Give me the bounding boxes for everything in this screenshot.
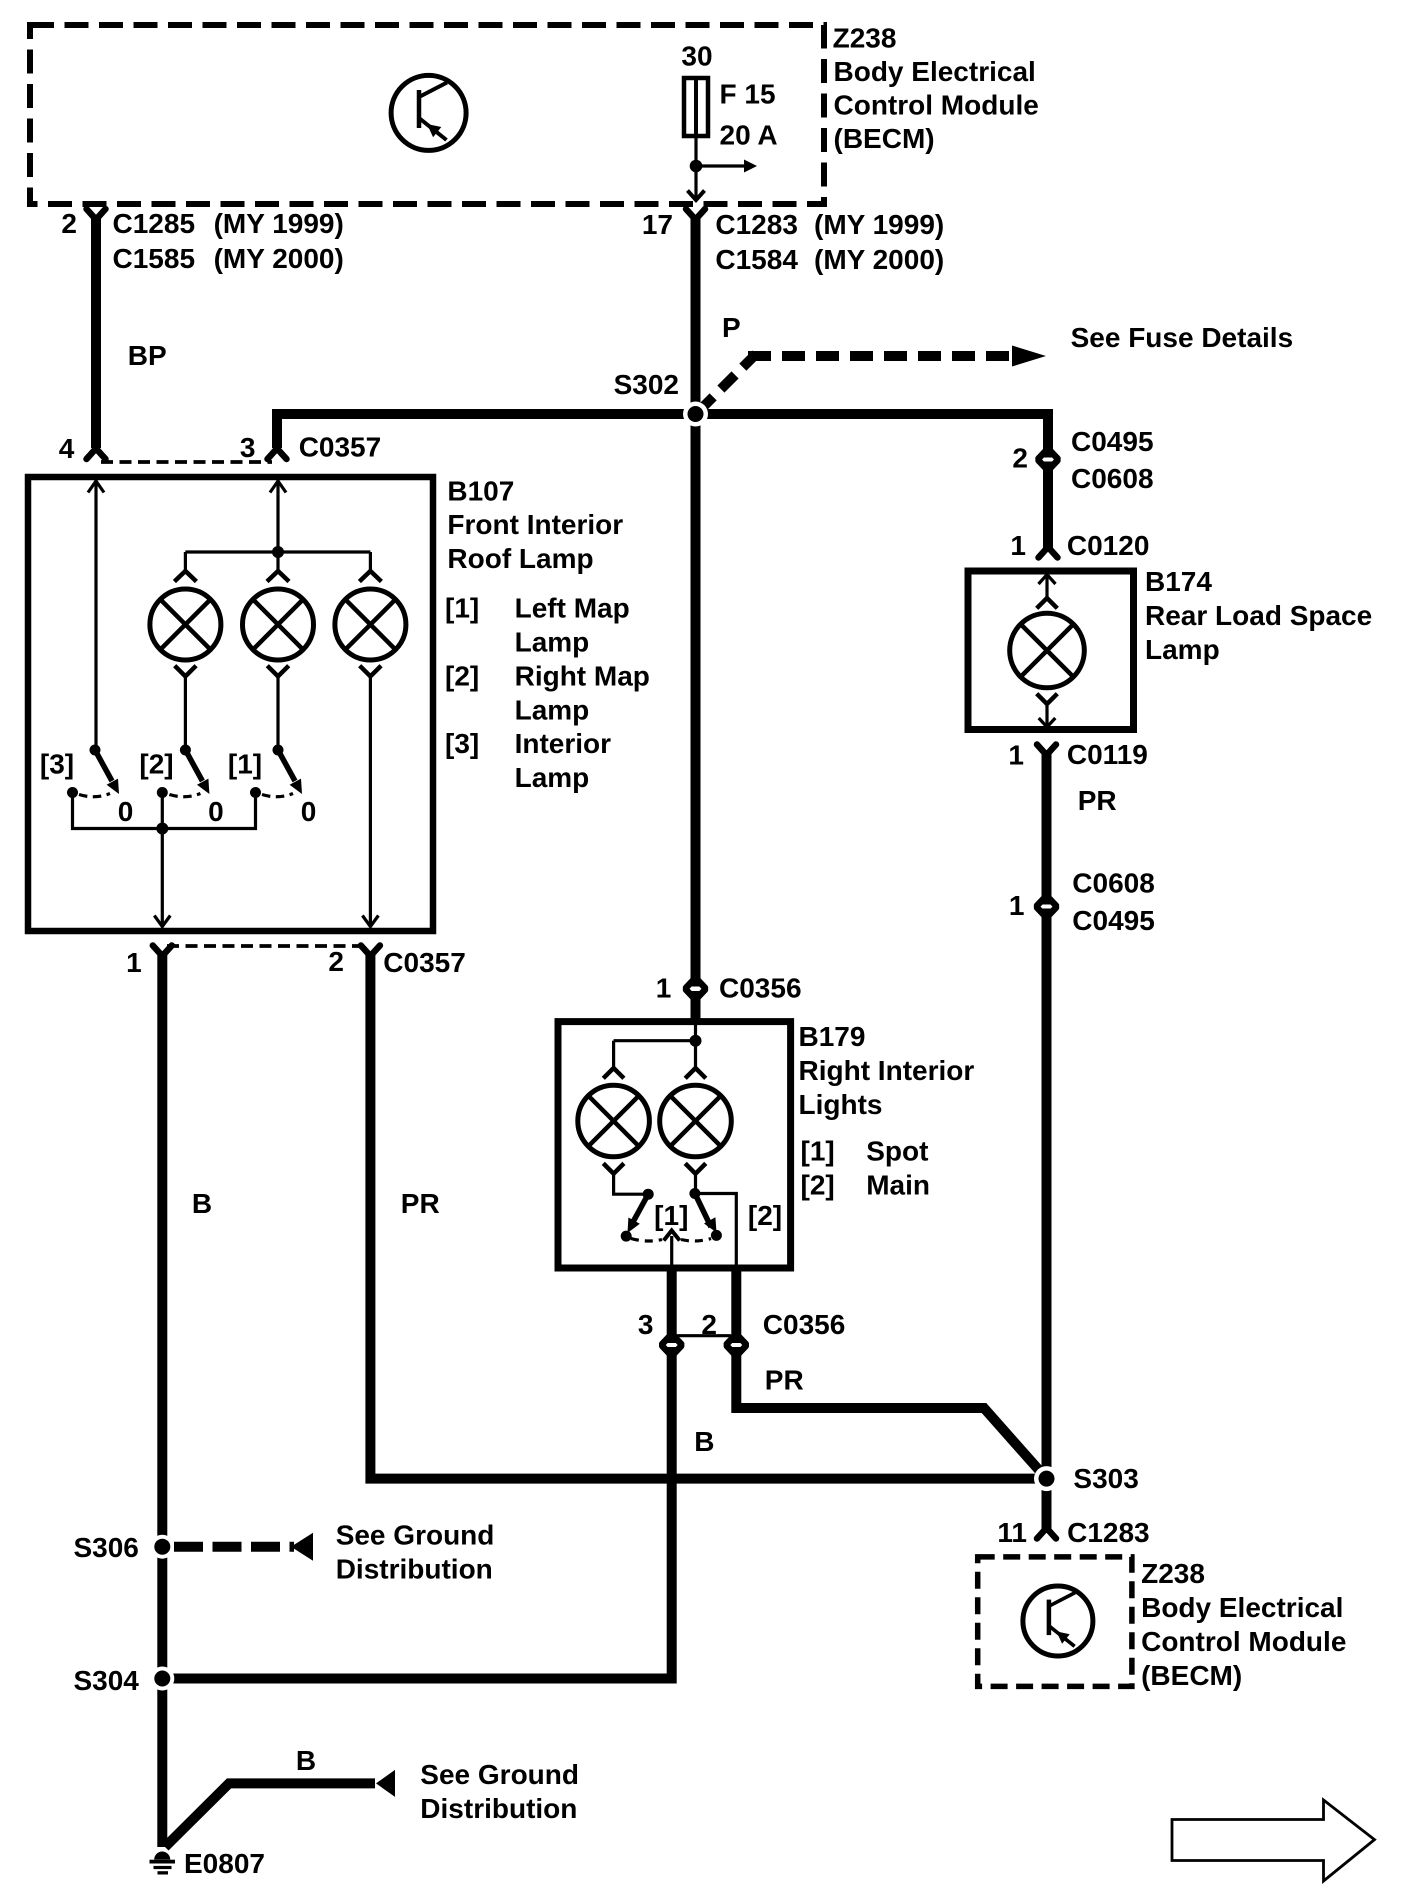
connector C1283 pin 11 fork — [1037, 1528, 1056, 1539]
svg-text:Control Module: Control Module — [834, 90, 1039, 121]
wire branch arrow right inside BECM — [696, 164, 744, 167]
lamp unit B179 box — [558, 1022, 791, 1268]
wire S302 horizontal right to C0495 — [696, 414, 1049, 458]
svg-text:[1]: [1] — [228, 749, 262, 780]
lamp spot B179 — [578, 1068, 650, 1174]
lamp B107 box — [28, 477, 433, 931]
wire B107 pin3 internal — [276, 480, 279, 552]
wire switch pole down — [161, 793, 164, 927]
svg-text:F 15: F 15 — [720, 79, 776, 110]
svg-text:(MY 1999): (MY 1999) — [214, 208, 344, 239]
svg-text:17: 17 — [642, 209, 673, 240]
svg-text:(BECM): (BECM) — [834, 123, 935, 154]
transistor symbol inside bottom BECM — [1023, 1586, 1093, 1656]
connector C0357 pin 2 fork — [361, 946, 380, 957]
svg-text:Rear Load Space: Rear Load Space — [1145, 600, 1372, 631]
svg-text:C0495: C0495 — [1071, 426, 1154, 457]
svg-text:C0356: C0356 — [763, 1309, 846, 1340]
connector C0120 pin 1 fork — [1039, 547, 1058, 558]
lamp right map B107 — [243, 571, 314, 676]
wire B174 internal bottom — [1045, 704, 1048, 727]
junction lamp bus — [272, 546, 284, 558]
wire switch common bus — [73, 793, 256, 829]
wire B diagonal to ground distribution — [165, 1783, 375, 1847]
svg-text:C1283: C1283 — [1067, 1517, 1150, 1548]
svg-text:[2]: [2] — [748, 1200, 782, 1231]
svg-text:B: B — [192, 1188, 212, 1219]
svg-text:C0608: C0608 — [1072, 868, 1155, 899]
svg-text:Lamp: Lamp — [515, 627, 590, 658]
wire fuse output — [694, 136, 697, 197]
svg-text:1: 1 — [656, 973, 672, 1004]
svg-text:B179: B179 — [799, 1021, 866, 1052]
svg-text:BP: BP — [128, 340, 167, 371]
svg-text:Body Electrical: Body Electrical — [834, 56, 1036, 87]
wire B179 feed — [694, 1022, 697, 1041]
junction below fuse — [690, 160, 703, 173]
svg-text:C0356: C0356 — [719, 973, 802, 1004]
wire BP from pin 2 to B107 pin 4 — [91, 218, 101, 449]
wire B179 pin2 out — [731, 1268, 741, 1343]
wire C0356 to B179 — [691, 991, 701, 1022]
svg-text:See Fuse Details: See Fuse Details — [1071, 322, 1294, 353]
svg-text:Z238: Z238 — [1141, 1558, 1205, 1589]
svg-text:[2]: [2] — [445, 661, 479, 692]
svg-text:4: 4 — [59, 433, 75, 464]
svg-text:[1]: [1] — [654, 1200, 688, 1231]
wire PR from pin2 down right to S303 — [370, 954, 1046, 1479]
wire PR from B179 pin2 to S303 — [736, 1347, 1046, 1479]
svg-text:1: 1 — [1009, 890, 1025, 921]
svg-text:0: 0 — [301, 796, 317, 827]
svg-text:(BECM): (BECM) — [1141, 1660, 1242, 1691]
lamp B174 box — [968, 571, 1134, 730]
svg-text:[3]: [3] — [40, 749, 74, 780]
svg-text:S306: S306 — [73, 1532, 138, 1563]
wire main branch to pin 2 — [695, 1194, 736, 1269]
svg-text:[1]: [1] — [445, 593, 479, 624]
wire B black from pin1 down to E0807 — [157, 954, 167, 1847]
lamp left map B107 — [150, 571, 221, 676]
junction switch bus — [156, 823, 168, 835]
svg-text:C1285: C1285 — [113, 208, 196, 239]
junction B179 feed — [690, 1035, 702, 1047]
svg-text:PR: PR — [401, 1188, 440, 1219]
svg-text:C0495: C0495 — [1072, 905, 1155, 936]
svg-text:Interior: Interior — [515, 728, 612, 759]
splice S302 — [683, 402, 708, 427]
svg-text:3: 3 — [638, 1309, 654, 1340]
wire lamp3 to pin2 — [369, 676, 372, 926]
svg-text:S302: S302 — [614, 369, 679, 400]
svg-text:2: 2 — [1012, 443, 1028, 474]
svg-text:Body Electrical: Body Electrical — [1141, 1592, 1343, 1623]
dashed connector line C0357 top — [101, 460, 272, 464]
wire PR from C0119 down — [1042, 753, 1052, 905]
svg-text:2: 2 — [701, 1309, 717, 1340]
svg-text:B: B — [694, 1426, 714, 1457]
connector C0357 pin 4 fork — [87, 449, 106, 460]
ground E0807 — [150, 1852, 176, 1875]
wire B174 internal top — [1045, 575, 1048, 598]
lamp interior B107 — [335, 571, 406, 676]
arrow down to pin 17 — [688, 191, 705, 201]
connector C0119 pin 1 fork — [1037, 745, 1056, 756]
svg-text:3: 3 — [240, 432, 256, 463]
pin 17 connector C1283/C1584 fork — [686, 209, 705, 220]
wire switch pole to pin 3 — [670, 1236, 673, 1268]
svg-text:Main: Main — [866, 1170, 930, 1201]
svg-text:C1283: C1283 — [715, 209, 798, 240]
connector line C0356 bottom — [676, 1334, 731, 1337]
svg-text:P: P — [722, 312, 741, 343]
svg-text:11: 11 — [997, 1517, 1027, 1548]
wire lamp feed bus — [185, 550, 370, 553]
svg-text:30: 30 — [681, 41, 712, 72]
svg-text:PR: PR — [1078, 785, 1117, 816]
wire P from pin 17 down to C0356 — [691, 218, 701, 987]
splice S306 — [150, 1535, 174, 1559]
svg-text:S303: S303 — [1073, 1463, 1138, 1494]
svg-text:1: 1 — [1010, 530, 1026, 561]
wire B179 pin3 out — [667, 1268, 677, 1343]
svg-text:C0357: C0357 — [383, 947, 466, 978]
svg-text:[2]: [2] — [801, 1170, 835, 1201]
connector C0495/C0608 pin 2 inline pair — [1039, 449, 1058, 471]
svg-text:(MY 2000): (MY 2000) — [214, 243, 344, 274]
svg-text:Lamp: Lamp — [515, 695, 590, 726]
svg-text:Distribution: Distribution — [336, 1554, 493, 1585]
wire main lamp to switch — [694, 1174, 697, 1192]
splice S303 — [1034, 1466, 1059, 1491]
svg-text:B: B — [296, 1745, 316, 1776]
svg-text:Control Module: Control Module — [1141, 1626, 1346, 1657]
connector C0357 pin 1 fork — [153, 946, 172, 957]
svg-text:1: 1 — [126, 947, 142, 978]
pin 2 connector C1285/C1585 fork — [87, 209, 106, 220]
svg-text:E0807: E0807 — [184, 1848, 265, 1879]
switch 1 — [250, 745, 302, 799]
connector C0356 pin 1 inline pair — [686, 978, 705, 1000]
svg-text:B107: B107 — [447, 476, 514, 507]
svg-text:[1]: [1] — [801, 1136, 835, 1167]
svg-text:(MY 1999): (MY 1999) — [814, 209, 944, 240]
svg-text:Right Map: Right Map — [515, 661, 650, 692]
svg-text:1: 1 — [1008, 740, 1024, 771]
svg-text:Roof Lamp: Roof Lamp — [447, 543, 593, 574]
lamp main B179 — [660, 1068, 732, 1174]
svg-text:Distribution: Distribution — [420, 1793, 577, 1824]
switch 3 — [67, 745, 119, 799]
svg-text:Z238: Z238 — [833, 23, 897, 54]
connector C0356 pin 2 inline pair — [727, 1334, 746, 1356]
svg-text:C0119: C0119 — [1067, 739, 1148, 770]
svg-text:2: 2 — [328, 946, 344, 977]
page continuation arrow — [1172, 1800, 1375, 1881]
svg-text:[2]: [2] — [139, 749, 173, 780]
switch 2 — [157, 745, 210, 799]
svg-text:See Ground: See Ground — [420, 1759, 579, 1790]
lamp B174 — [1010, 598, 1085, 704]
wire B107 pin4 internal — [94, 480, 97, 748]
svg-text:S304: S304 — [73, 1665, 139, 1696]
svg-text:Lamp: Lamp — [1145, 634, 1220, 665]
wire PR down to S303 — [1042, 909, 1052, 1531]
svg-text:PR: PR — [765, 1365, 804, 1396]
splice S304 — [150, 1667, 174, 1691]
svg-text:C0357: C0357 — [299, 432, 382, 463]
svg-text:C0608: C0608 — [1071, 463, 1154, 494]
svg-text:Lamp: Lamp — [515, 762, 590, 793]
connector C0357 pin 3 fork — [268, 449, 287, 460]
transistor symbol inside top BECM — [391, 75, 466, 150]
svg-text:Right Interior: Right Interior — [799, 1055, 975, 1086]
svg-text:(MY 2000): (MY 2000) — [814, 244, 944, 275]
svg-text:C0120: C0120 — [1067, 530, 1150, 561]
dashed wire S306 ground distribution — [174, 1542, 294, 1552]
svg-text:B174: B174 — [1145, 566, 1212, 597]
wire spot lamp to switch — [614, 1174, 645, 1195]
dashed connector line C0357 bottom — [167, 944, 365, 948]
svg-text:C1584: C1584 — [715, 244, 798, 275]
wire lamp1 to switch2 — [184, 676, 187, 748]
svg-text:Spot: Spot — [866, 1136, 928, 1167]
svg-text:See Ground: See Ground — [336, 1520, 495, 1551]
svg-text:2: 2 — [61, 208, 77, 239]
wire S302 horizontal left to B107 pin 3 — [277, 414, 696, 448]
svg-text:0: 0 — [118, 796, 134, 827]
svg-text:C1585: C1585 — [113, 243, 196, 274]
svg-text:Left Map: Left Map — [515, 593, 630, 624]
wire lamp2 to switch1 — [276, 676, 279, 748]
module Z238 BECM top dashed box — [30, 25, 824, 204]
switch B179 — [621, 1188, 722, 1242]
connector C0608/C0495 pin 1 inline pair — [1037, 896, 1056, 918]
svg-text:Lights: Lights — [799, 1089, 883, 1120]
connector C0356 pin 3 inline pair — [662, 1334, 681, 1356]
dashed wire to fuse details — [699, 354, 756, 411]
svg-text:0: 0 — [208, 796, 224, 827]
module Z238 BECM bottom dashed box — [978, 1557, 1132, 1687]
wire B from B179 pin3 to S304 — [162, 1347, 672, 1679]
wire C0495 to C0120 — [1043, 462, 1053, 550]
fuse F15 20A — [684, 78, 708, 136]
lamp 1 stub — [184, 552, 187, 570]
svg-text:20 A: 20 A — [720, 120, 778, 151]
svg-text:Front Interior: Front Interior — [447, 509, 623, 540]
svg-text:[3]: [3] — [445, 728, 479, 759]
